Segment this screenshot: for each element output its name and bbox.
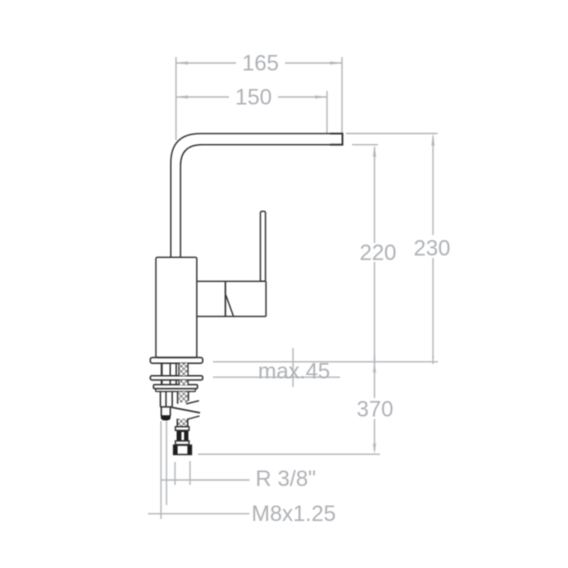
dim 230 vertical line [432,136,434,358]
handle cartridge housing bottom [197,315,266,317]
arrowheads [176,61,435,453]
M8 stud tip dark cap [161,415,171,420]
dim 150 line [176,96,327,98]
lever [260,211,265,281]
countertop line [213,361,438,363]
hose break line A [186,401,199,404]
hose column left edge upper [175,363,177,385]
dimension lines group [148,57,438,519]
hose break line B [172,407,201,413]
arrow 220 top [373,145,376,157]
connector nut R3/8 [174,445,192,454]
faucet drawing [150,134,342,455]
max45 lower line [213,376,340,378]
M8 stud right edge upper [169,363,171,385]
arrow 150 left [176,95,188,98]
thread texture below bracket [179,392,188,403]
hose end reference line [198,453,380,455]
shank verticals below bracket [160,392,177,407]
svg-text:370: 370 [357,397,394,422]
connector dark section slot [181,432,184,440]
M8 dimension line [148,513,250,515]
thread texture upper [179,363,187,376]
base flange [150,358,202,364]
svg-text:220: 220 [360,240,397,265]
hose break line C [181,416,200,421]
M8 stud left edge upper [161,363,163,385]
dim 165 right extension line [341,57,343,133]
bracket bar top plate [154,385,198,389]
arrow 370 bottom [373,444,376,454]
washer bar [150,376,202,380]
checker right edge below bracket [187,392,189,401]
arrow 230 top [431,134,434,146]
svg-text:150: 150 [235,85,272,110]
hose checker right border upper [187,363,189,385]
R 3/8 extension ticks [175,461,190,485]
dimension text labels [235,51,450,527]
second extension line [166,421,168,505]
dim 230 top extension line [346,133,438,135]
housing inner vertical [224,281,226,316]
nut dark left edge [174,445,178,454]
svg-text:M8x1.25: M8x1.25 [252,501,336,526]
arrow 370 top [373,362,376,372]
M8 stud tip top [160,406,172,408]
arrow 165 left [176,61,188,64]
connector dark section [177,431,189,441]
dim 220 / 370 vertical line [374,147,376,451]
R 3/8 dimension line [161,479,250,481]
hose checker left border upper [178,363,180,385]
connector band 1 [175,427,189,431]
connector band 2 [175,441,189,445]
bracket bar front face [156,389,196,392]
nut dark right edge [187,445,191,454]
dim 165 line [176,62,342,64]
arrow 150 right [315,95,327,98]
svg-text:max.45: max.45 [258,359,330,384]
dim 220 top extension line [352,144,378,146]
overshoot tick 230 at countertop [432,356,434,365]
housing diagonal [226,295,234,316]
dim 165 left extension line [175,57,177,140]
dim 150 right extension line [326,91,328,133]
M8 stud tip sides [161,407,170,416]
spout tube outline [171,134,343,258]
hose segment texture [178,419,187,427]
svg-text:230: 230 [414,236,451,261]
overshoot tick 220 at countertop [374,356,376,365]
svg-text:165: 165 [242,51,279,76]
body [156,257,197,357]
handle cartridge housing right [265,281,267,316]
svg-text:R 3/8": R 3/8" [256,466,316,491]
max45 tick [292,348,294,387]
spout tip heavier [330,134,342,145]
handle cartridge housing top [197,280,266,282]
M8 extension line [160,421,162,519]
arrow 165 right [330,61,342,64]
